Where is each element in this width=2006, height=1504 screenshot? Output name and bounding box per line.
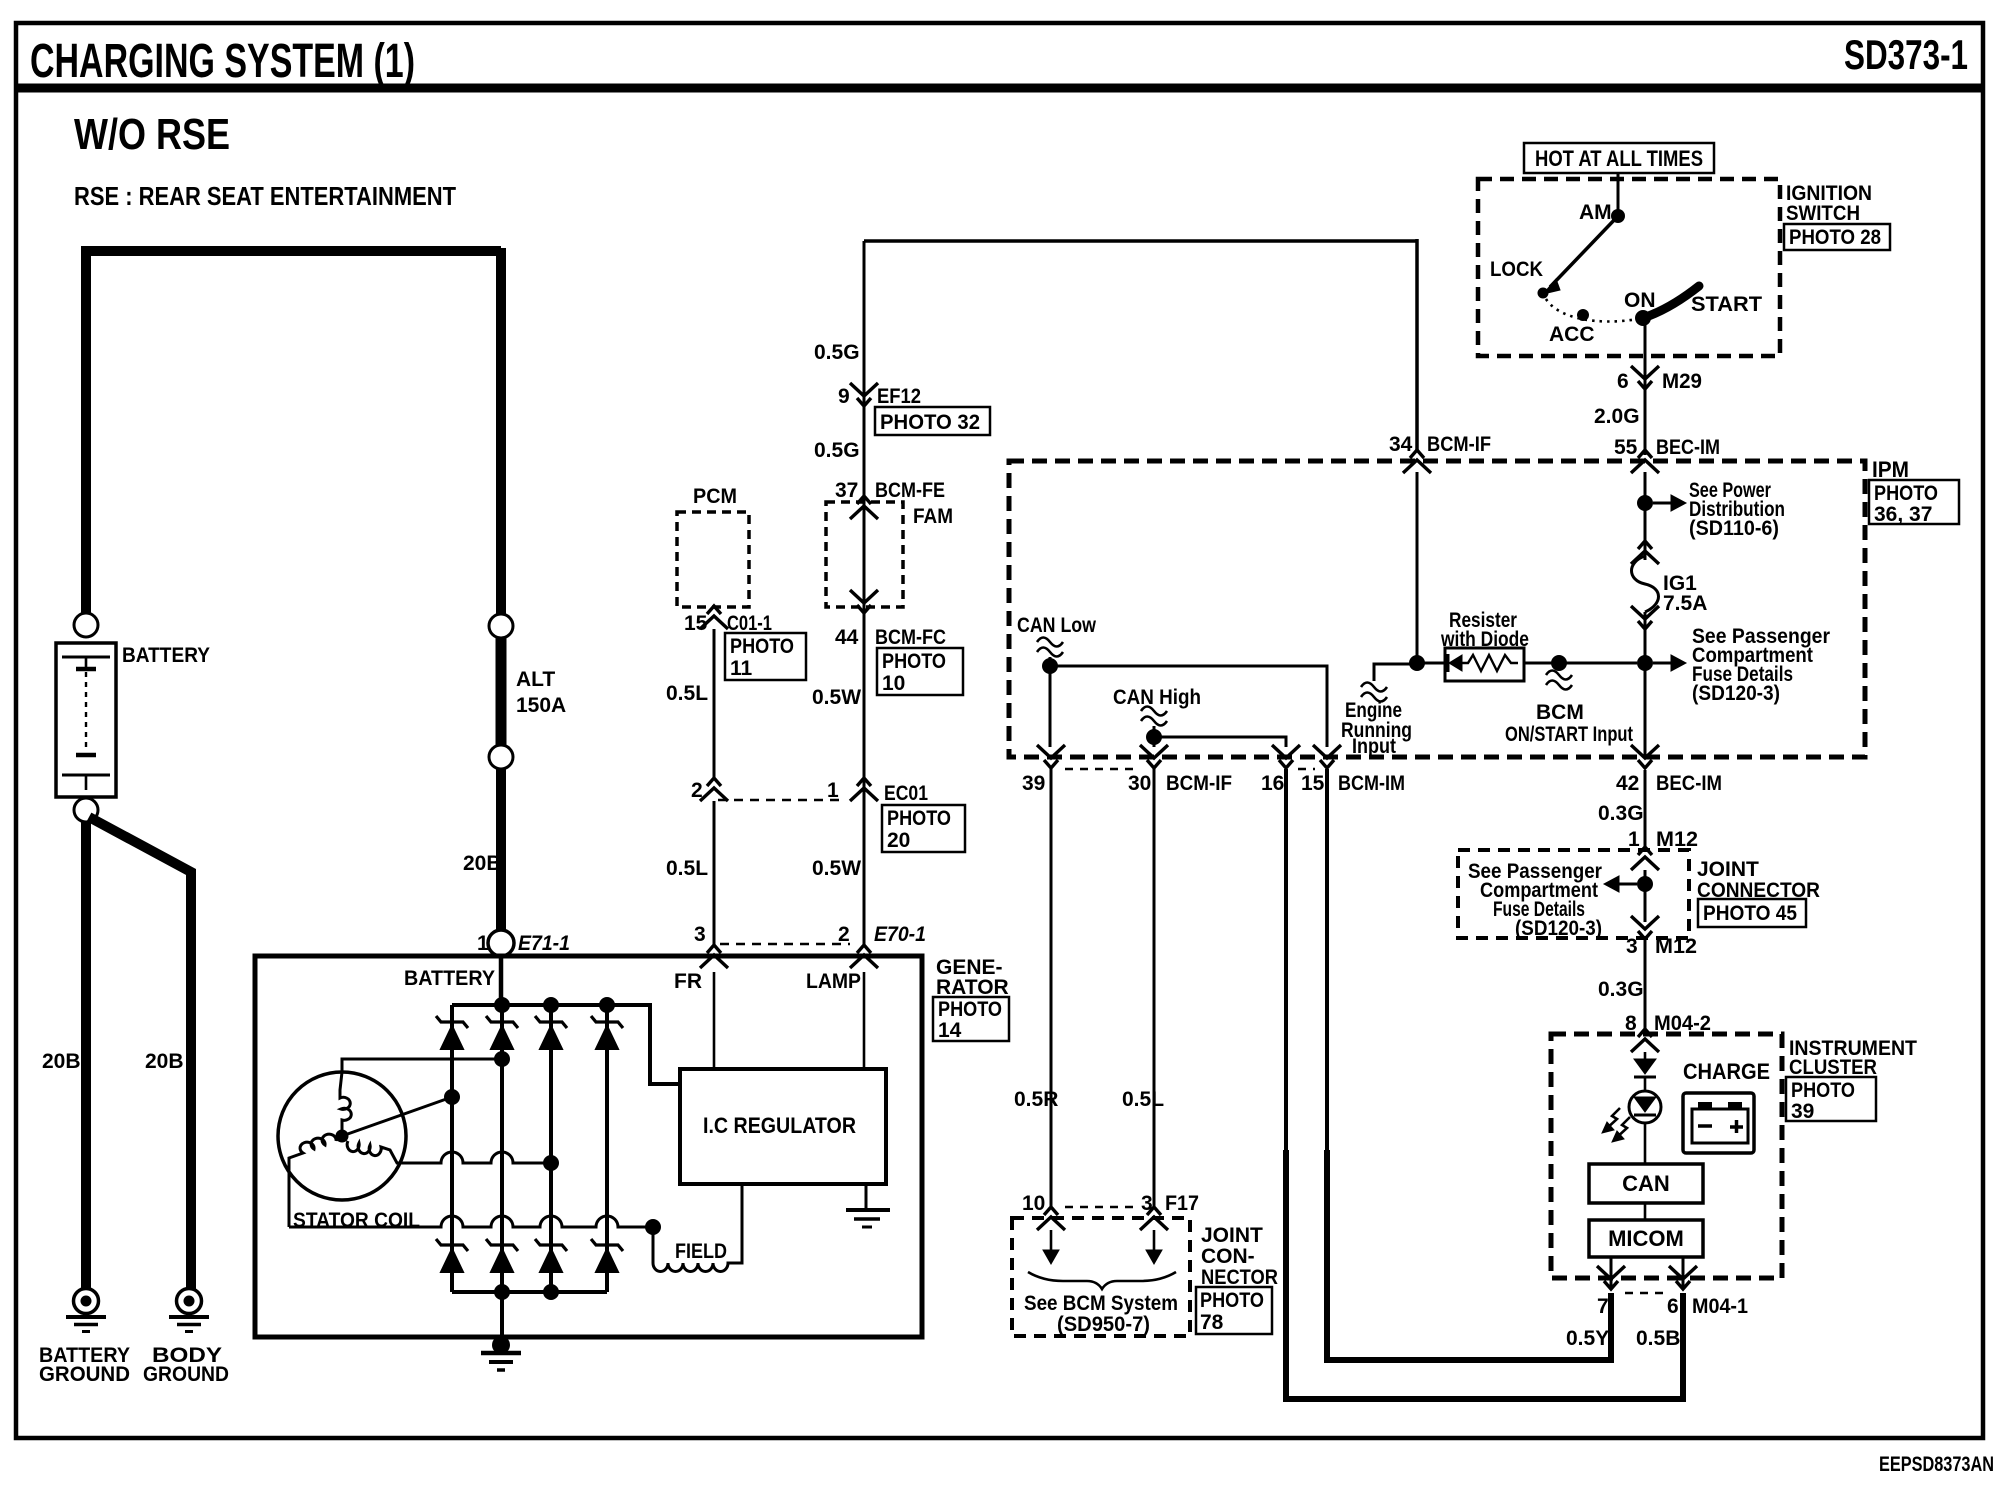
svg-text:2: 2 xyxy=(691,779,703,802)
svg-text:RATOR: RATOR xyxy=(936,976,1009,999)
svg-text:2.0G: 2.0G xyxy=(1594,405,1640,428)
svg-text:78: 78 xyxy=(1200,1311,1224,1334)
svg-text:CLUSTER: CLUSTER xyxy=(1789,1056,1877,1079)
svg-text:See BCM System: See BCM System xyxy=(1024,1292,1178,1315)
svg-text:20B: 20B xyxy=(463,852,502,875)
svg-text:BCM-FC: BCM-FC xyxy=(875,626,946,649)
svg-text:3: 3 xyxy=(1141,1192,1153,1215)
svg-text:42: 42 xyxy=(1616,772,1639,795)
svg-text:Input: Input xyxy=(1352,735,1396,758)
svg-text:BATTERY: BATTERY xyxy=(122,644,210,667)
svg-text:1: 1 xyxy=(477,932,489,955)
svg-text:CHARGE: CHARGE xyxy=(1683,1059,1770,1084)
svg-text:10: 10 xyxy=(882,672,905,695)
svg-text:E71-1: E71-1 xyxy=(518,932,570,955)
svg-text:(SD120-3): (SD120-3) xyxy=(1692,682,1780,705)
svg-text:LOCK: LOCK xyxy=(1490,258,1543,281)
svg-text:1: 1 xyxy=(827,779,839,802)
svg-text:EF12: EF12 xyxy=(877,385,921,408)
svg-text:CAN High: CAN High xyxy=(1113,686,1201,709)
svg-text:36, 37: 36, 37 xyxy=(1874,503,1932,526)
svg-text:E70-1: E70-1 xyxy=(874,923,926,946)
svg-text:ON/START Input: ON/START Input xyxy=(1505,723,1633,746)
svg-text:I.C REGULATOR: I.C REGULATOR xyxy=(703,1113,856,1138)
svg-text:PHOTO: PHOTO xyxy=(938,998,1002,1021)
svg-text:CON-: CON- xyxy=(1201,1245,1255,1268)
svg-text:SD373-1: SD373-1 xyxy=(1844,31,1968,78)
svg-text:BCM: BCM xyxy=(1536,701,1584,724)
svg-text:20B: 20B xyxy=(145,1050,184,1073)
svg-text:BCM-FE: BCM-FE xyxy=(875,479,945,502)
svg-text:1: 1 xyxy=(1628,828,1640,851)
svg-text:GROUND: GROUND xyxy=(143,1363,229,1386)
svg-text:0.5Y: 0.5Y xyxy=(1566,1327,1609,1350)
svg-text:STATOR COIL: STATOR COIL xyxy=(293,1209,420,1232)
svg-text:14: 14 xyxy=(938,1019,962,1042)
svg-text:7.5A: 7.5A xyxy=(1663,592,1707,615)
svg-text:C01-1: C01-1 xyxy=(727,612,772,635)
svg-text:AM: AM xyxy=(1579,201,1612,224)
svg-text:PHOTO: PHOTO xyxy=(882,650,946,673)
svg-text:20: 20 xyxy=(887,829,910,852)
svg-text:PHOTO: PHOTO xyxy=(887,807,951,830)
svg-text:BEC-IM: BEC-IM xyxy=(1656,436,1720,459)
svg-text:39: 39 xyxy=(1022,772,1045,795)
svg-text:(SD110-6): (SD110-6) xyxy=(1689,517,1779,540)
svg-text:9: 9 xyxy=(838,385,850,408)
svg-text:150A: 150A xyxy=(516,694,566,717)
svg-text:BATTERY: BATTERY xyxy=(404,967,495,990)
svg-text:0.5G: 0.5G xyxy=(814,439,860,462)
svg-text:FIELD: FIELD xyxy=(675,1240,727,1263)
svg-text:BEC-IM: BEC-IM xyxy=(1656,772,1722,795)
svg-text:FAM: FAM xyxy=(913,505,953,528)
svg-text:7: 7 xyxy=(1597,1295,1609,1318)
svg-text:PHOTO 28: PHOTO 28 xyxy=(1789,226,1881,249)
svg-text:PHOTO: PHOTO xyxy=(730,635,794,658)
svg-text:20B: 20B xyxy=(42,1050,81,1073)
svg-text:M12: M12 xyxy=(1656,828,1698,851)
svg-text:HOT AT ALL TIMES: HOT AT ALL TIMES xyxy=(1535,146,1703,171)
svg-text:0.5W: 0.5W xyxy=(812,686,861,709)
svg-text:CHARGING SYSTEM (1): CHARGING SYSTEM (1) xyxy=(30,35,415,88)
svg-text:3: 3 xyxy=(694,923,706,946)
svg-text:0.5R: 0.5R xyxy=(1014,1088,1058,1111)
svg-text:0.5L: 0.5L xyxy=(666,682,708,705)
svg-text:GROUND: GROUND xyxy=(39,1363,130,1386)
svg-text:MICOM: MICOM xyxy=(1608,1226,1684,1251)
svg-text:34: 34 xyxy=(1389,433,1413,456)
svg-text:15: 15 xyxy=(1301,772,1325,795)
svg-text:(SD120-3): (SD120-3) xyxy=(1515,917,1602,940)
svg-text:16: 16 xyxy=(1261,772,1284,795)
svg-text:EEPSD8373AN: EEPSD8373AN xyxy=(1879,1453,1994,1476)
svg-text:ACC: ACC xyxy=(1549,323,1595,346)
svg-text:BCM-IF: BCM-IF xyxy=(1166,772,1232,795)
svg-text:F17: F17 xyxy=(1165,1192,1199,1215)
svg-text:BCM-IM: BCM-IM xyxy=(1338,772,1405,795)
svg-text:30: 30 xyxy=(1128,772,1151,795)
svg-text:SWITCH: SWITCH xyxy=(1786,202,1860,225)
svg-text:0.3G: 0.3G xyxy=(1598,802,1644,825)
svg-text:PHOTO: PHOTO xyxy=(1200,1289,1264,1312)
svg-text:0.5W: 0.5W xyxy=(812,857,861,880)
svg-text:0.5L: 0.5L xyxy=(1122,1088,1164,1111)
svg-text:JOINT: JOINT xyxy=(1697,858,1759,881)
svg-text:PHOTO: PHOTO xyxy=(1791,1079,1855,1102)
svg-text:PHOTO 45: PHOTO 45 xyxy=(1703,902,1797,925)
svg-text:PHOTO 32: PHOTO 32 xyxy=(880,411,980,434)
svg-text:START: START xyxy=(1691,293,1762,316)
svg-text:CAN Low: CAN Low xyxy=(1017,614,1097,637)
svg-text:FR: FR xyxy=(674,970,702,993)
svg-text:W/O RSE: W/O RSE xyxy=(74,110,230,159)
svg-text:M29: M29 xyxy=(1662,370,1702,393)
svg-text:BCM-IF: BCM-IF xyxy=(1427,433,1491,456)
svg-text:10: 10 xyxy=(1022,1192,1045,1215)
svg-text:NECTOR: NECTOR xyxy=(1201,1266,1278,1289)
svg-text:M12: M12 xyxy=(1655,935,1697,958)
svg-text:JOINT: JOINT xyxy=(1201,1224,1263,1247)
svg-text:44: 44 xyxy=(835,626,859,649)
svg-text:0.5B: 0.5B xyxy=(1636,1327,1680,1350)
svg-text:11: 11 xyxy=(730,657,753,680)
svg-text:39: 39 xyxy=(1791,1100,1814,1123)
svg-text:IPM: IPM xyxy=(1872,457,1909,482)
svg-text:CAN: CAN xyxy=(1622,1171,1670,1196)
svg-text:55: 55 xyxy=(1614,436,1638,459)
svg-text:37: 37 xyxy=(835,479,858,502)
svg-text:with Diode: with Diode xyxy=(1440,628,1529,651)
svg-text:0.3G: 0.3G xyxy=(1598,978,1644,1001)
svg-text:EC01: EC01 xyxy=(884,782,928,805)
svg-text:M04-1: M04-1 xyxy=(1692,1295,1748,1318)
svg-text:0.5G: 0.5G xyxy=(814,341,860,364)
svg-text:PHOTO: PHOTO xyxy=(1874,482,1938,505)
svg-text:15: 15 xyxy=(684,612,708,635)
svg-text:0.5L: 0.5L xyxy=(666,857,708,880)
svg-text:PCM: PCM xyxy=(693,485,737,508)
svg-text:6: 6 xyxy=(1617,370,1629,393)
svg-text:2: 2 xyxy=(838,923,850,946)
svg-text:3: 3 xyxy=(1626,935,1638,958)
svg-text:(SD950-7): (SD950-7) xyxy=(1057,1313,1150,1336)
svg-text:RSE : REAR SEAT ENTERTAINMENT: RSE : REAR SEAT ENTERTAINMENT xyxy=(74,181,456,211)
svg-text:ALT: ALT xyxy=(516,668,555,691)
svg-text:6: 6 xyxy=(1667,1295,1679,1318)
svg-text:ON: ON xyxy=(1624,289,1656,312)
svg-text:LAMP: LAMP xyxy=(806,970,861,993)
